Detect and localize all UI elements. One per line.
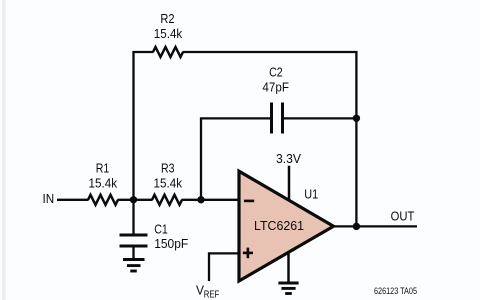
wire R2 to right vertical down to output node — [183, 52, 357, 226]
node B junction dot — [197, 196, 204, 203]
resistor R3 — [152, 161, 182, 205]
wire C2 right plate to right vertical — [284, 117, 356, 119]
svg-text:R1: R1 — [96, 161, 110, 176]
node A junction dot — [130, 196, 137, 203]
output junction dot — [353, 223, 360, 230]
wire IN to R1 — [57, 199, 89, 201]
resistor R2 — [153, 11, 183, 57]
svg-text:C1: C1 — [154, 221, 168, 236]
svg-text:R2: R2 — [160, 11, 174, 26]
svg-text:626123 TA05: 626123 TA05 — [374, 286, 417, 296]
svg-text:R3: R3 — [161, 161, 175, 176]
svg-text:150pF: 150pF — [154, 236, 188, 251]
capacitor C1 — [120, 200, 189, 251]
svg-text:15.4k: 15.4k — [89, 176, 118, 191]
resistor R1 — [88, 161, 118, 205]
ground under C1 — [123, 248, 145, 272]
capacitor C2 — [262, 65, 289, 134]
svg-text:OUT: OUT — [391, 208, 415, 223]
svg-text:3.3V: 3.3V — [276, 151, 301, 166]
wire R1 to R3 through node A — [118, 199, 153, 201]
svg-text:U1: U1 — [304, 187, 318, 202]
svg-text:LTC6261: LTC6261 — [254, 218, 304, 233]
minus sign (inverting input) — [244, 200, 254, 203]
svg-text:C2: C2 — [269, 65, 283, 80]
plus sign (non-inverting input) — [243, 248, 253, 259]
svg-text:IN: IN — [43, 191, 55, 206]
op-amp U1 — [239, 171, 334, 281]
wire node B up and to C2 left plate — [201, 118, 270, 199]
ground under op-amp — [278, 251, 298, 294]
svg-text:47pF: 47pF — [262, 80, 289, 95]
wire op-amp output to OUT — [334, 225, 418, 227]
svg-text:15.4k: 15.4k — [154, 26, 183, 41]
wire R3 to op-amp inverting input through node B — [182, 199, 240, 201]
svg-text:REF: REF — [204, 290, 220, 300]
wire non-inverting input to VREF — [209, 253, 239, 281]
node VREF label — [196, 283, 219, 300]
supply 3.3V — [276, 151, 301, 201]
wire feedback left vertical and top run to R2 — [134, 52, 154, 200]
svg-text:15.4k: 15.4k — [154, 176, 183, 191]
junction dot C2 feedback — [353, 115, 360, 122]
